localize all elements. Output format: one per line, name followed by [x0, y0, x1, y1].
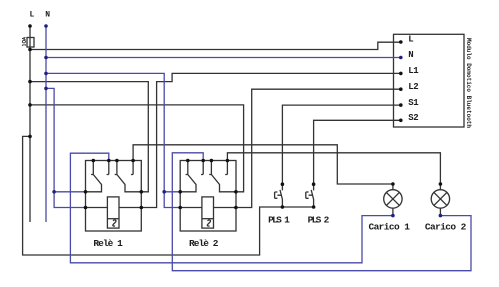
svg-text:Carico 2: Carico 2: [425, 222, 467, 233]
svg-text:N: N: [45, 11, 50, 20]
svg-text:Modulo Domotico Bluetooth: Modulo Domotico Bluetooth: [465, 38, 472, 128]
svg-text:L: L: [408, 35, 413, 45]
svg-text:N: N: [408, 50, 413, 60]
svg-text:Carico 1: Carico 1: [368, 222, 410, 233]
svg-text:Relè 1: Relè 1: [93, 238, 123, 249]
svg-text:S1: S1: [408, 98, 419, 108]
svg-text:Relè 2: Relè 2: [189, 238, 219, 249]
svg-text:L: L: [30, 11, 35, 20]
svg-text:L1: L1: [408, 66, 419, 76]
svg-text:PLS 1: PLS 1: [268, 214, 290, 225]
svg-text:PLS 2: PLS 2: [308, 214, 330, 225]
svg-text:L2: L2: [408, 82, 418, 92]
svg-text:S2: S2: [408, 113, 418, 123]
